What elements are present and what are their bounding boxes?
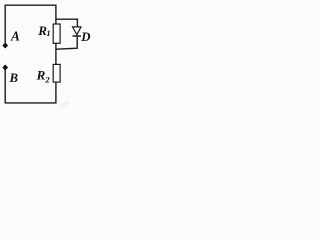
smudge bottom right <box>59 100 70 108</box>
background <box>0 0 93 110</box>
svg-text:A: A <box>10 29 20 44</box>
wire: top bus to diode branch <box>56 19 78 27</box>
svg-text:D: D <box>80 30 90 44</box>
node B <box>3 65 8 71</box>
svg-text:R: R <box>36 67 46 82</box>
wire: left + top + right drop to R1 <box>5 5 56 43</box>
svg-text:1: 1 <box>46 28 50 38</box>
resistor R1 <box>53 24 60 43</box>
wire: R1 bottom through junction to R2 top <box>55 43 57 64</box>
diode D triangle <box>73 27 82 35</box>
wire: R2 bottom + bottom wire + left up to node B <box>5 70 56 103</box>
wire: diode bottom to lower bus <box>56 37 77 50</box>
diode D cathode bar <box>73 35 81 37</box>
resistor R2 <box>53 64 60 82</box>
svg-text:B: B <box>9 71 19 85</box>
node A <box>3 43 8 49</box>
svg-text:2: 2 <box>44 74 50 84</box>
